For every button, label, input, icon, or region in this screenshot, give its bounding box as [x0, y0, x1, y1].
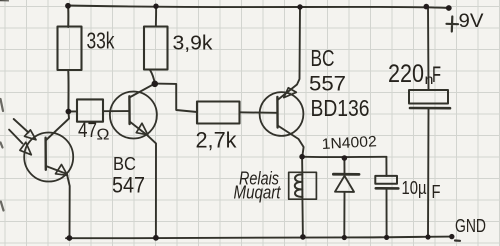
light arrow 2	[9, 130, 22, 144]
Q2 collector wire to node B	[129, 84, 154, 98]
svg-text:2,7k: 2,7k	[196, 128, 238, 153]
diode D1 branch wire lower	[343, 192, 345, 238]
junction dot node A	[66, 109, 72, 115]
resistor R1 33k	[58, 27, 82, 71]
diode D1 1N4002 branch wire upper	[343, 158, 345, 173]
wire top rail to R2	[155, 6, 157, 27]
diode D1 triangle	[335, 176, 354, 192]
junction dot top rail / R2	[153, 3, 158, 8]
junction dot top rail / C1	[424, 4, 430, 10]
cap C1 top plate box	[409, 90, 448, 104]
relay coil wire through box	[301, 172, 303, 197]
svg-text:Muqart: Muqart	[234, 183, 282, 203]
plus sign of +9V	[447, 17, 459, 32]
svg-text:9V: 9V	[459, 11, 484, 32]
Q1 base bar	[44, 138, 47, 170]
junction dot node B	[152, 81, 159, 88]
cap C1 branch wire lower	[427, 108, 430, 237]
cap C1 bottom plate	[410, 107, 450, 110]
cap C1 220nF branch wire upper	[427, 7, 430, 91]
wire node B to R4	[155, 84, 197, 112]
wire R2 bottom to node B	[150, 70, 155, 84]
Q1 emitter arrowhead	[56, 165, 68, 176]
cap C2 branch wire lower	[386, 188, 388, 237]
cap C2 bottom plate	[376, 187, 399, 190]
diode D1 cathode bar	[333, 173, 359, 176]
resistor R2 3.9k	[144, 27, 168, 70]
svg-text:F: F	[432, 182, 441, 202]
Q3 emitter wire to +9V rail	[278, 7, 301, 100]
junction dot node C / D1	[342, 155, 348, 161]
light arrow 1	[14, 119, 29, 133]
junction dot top rail / Q3 emitter	[297, 4, 302, 9]
svg-text:BC: BC	[113, 154, 136, 174]
svg-text:BD136: BD136	[311, 95, 370, 121]
svg-text:1N4002: 1N4002	[321, 133, 377, 153]
Q3 emitter arrowhead	[284, 88, 297, 98]
svg-text:33k: 33k	[87, 28, 115, 54]
Q1 collector wire to node A	[46, 112, 69, 141]
Q2 emitter arrowhead	[136, 123, 148, 135]
bottom GND rail wire	[66, 237, 452, 239]
Q3 collector wire to node C	[278, 126, 304, 157]
junction dot bottom rail / Q2	[153, 235, 159, 241]
resistor R4 2.7k	[197, 102, 240, 124]
transistor Q3 BC557/BD136 body	[260, 92, 304, 136]
svg-text:547: 547	[112, 173, 145, 198]
svg-text:Ω: Ω	[97, 127, 110, 144]
svg-text:3,9k: 3,9k	[173, 33, 214, 55]
cap C2 top plate box	[375, 176, 397, 184]
end dot +9V	[446, 5, 452, 11]
Q2 emitter wire	[130, 122, 156, 239]
junction dot bottom rail / C1	[425, 234, 430, 239]
junction dot bottom rail / D1	[342, 235, 347, 240]
top +9V rail wire	[67, 6, 450, 9]
junction dot bottom rail / Q1	[67, 235, 73, 241]
wire R1 bottom to node A	[67, 70, 69, 112]
svg-text:220: 220	[388, 60, 424, 88]
svg-text:BC: BC	[311, 45, 335, 71]
wire R4 to Q3 base	[240, 111, 278, 114]
relay branch wire	[301, 157, 304, 237]
svg-text:10µ: 10µ	[402, 178, 427, 198]
junction dot top rail / R1	[65, 3, 71, 9]
wire R3 to Q2 base	[103, 110, 129, 112]
junction dot node C	[299, 154, 305, 160]
transistor Q1 phototransistor body	[24, 133, 73, 182]
wire top rail to R1	[67, 6, 69, 27]
end dot GND	[449, 234, 454, 239]
Q2 base bar	[128, 96, 131, 124]
relay K1 coil bumps	[295, 175, 303, 197]
junction dot bottom rail / relay	[300, 234, 306, 240]
Q3 base bar	[276, 97, 279, 128]
svg-text:47: 47	[78, 119, 97, 142]
transistor Q2 BC547 body	[110, 92, 157, 139]
Q1 emitter wire	[46, 166, 70, 238]
junction dot bottom rail / C2	[384, 235, 389, 240]
resistor R3 47 ohm	[77, 99, 103, 121]
svg-text:GND: GND	[455, 216, 486, 236]
svg-text:557: 557	[309, 73, 346, 96]
cap C2 10uF branch wire upper	[385, 157, 387, 176]
svg-text:F: F	[432, 62, 441, 87]
wire node C to cap C2 corner	[302, 156, 386, 158]
wire node A to R3	[68, 110, 77, 112]
relay K1 box	[289, 172, 317, 199]
